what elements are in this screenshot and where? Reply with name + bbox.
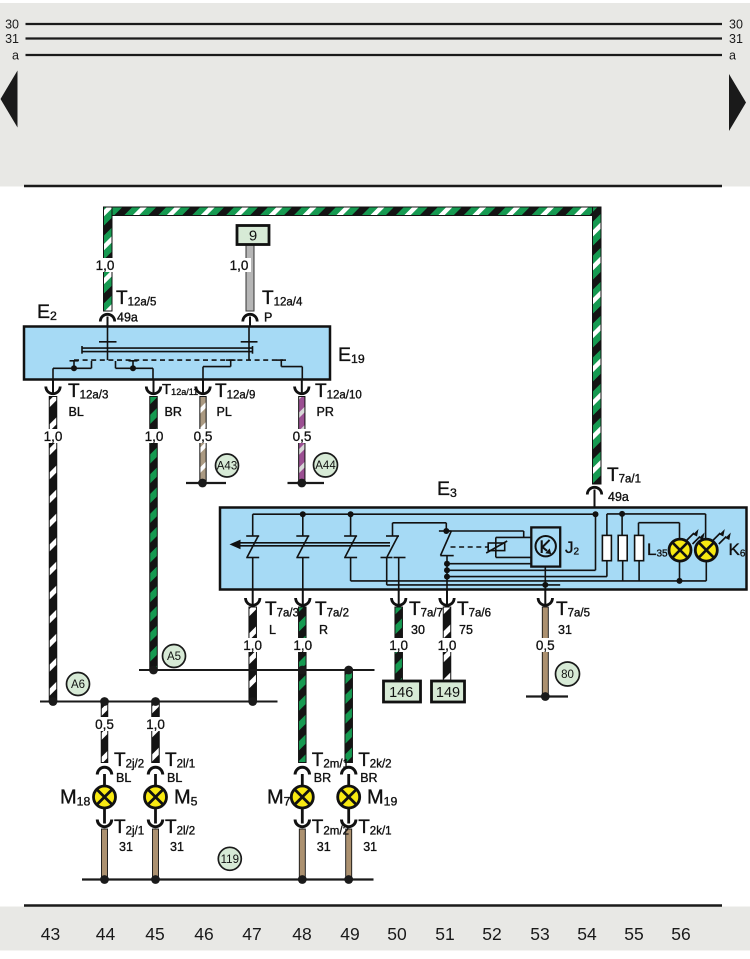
svg-text:L: L (269, 623, 276, 637)
svg-text:T12a/11: T12a/11 (162, 381, 198, 398)
svg-text:E19: E19 (338, 344, 365, 366)
svg-text:BR: BR (314, 771, 331, 785)
svg-text:31: 31 (729, 32, 743, 46)
svg-text:146: 146 (389, 685, 413, 701)
svg-text:149: 149 (436, 685, 460, 701)
svg-text:T12a/10: T12a/10 (315, 381, 362, 402)
svg-text:45: 45 (145, 924, 164, 944)
svg-text:M19: M19 (367, 787, 398, 809)
svg-text:1,0: 1,0 (243, 638, 262, 653)
svg-text:P: P (264, 311, 272, 325)
svg-text:44: 44 (96, 924, 116, 944)
svg-text:A44: A44 (315, 460, 336, 472)
svg-text:49: 49 (340, 924, 359, 944)
svg-text:1,0: 1,0 (293, 638, 312, 653)
svg-text:0,5: 0,5 (293, 429, 312, 444)
svg-text:T2k/1: T2k/1 (358, 817, 391, 838)
svg-text:T2m/2: T2m/2 (312, 817, 349, 838)
svg-text:A5: A5 (167, 651, 181, 663)
svg-text:30: 30 (411, 623, 425, 637)
svg-text:0,5: 0,5 (536, 638, 555, 653)
svg-text:BL: BL (167, 771, 182, 785)
svg-text:49a: 49a (117, 311, 138, 325)
svg-text:T2k/2: T2k/2 (358, 750, 391, 771)
svg-text:T2m/1: T2m/1 (312, 750, 349, 771)
svg-text:PR: PR (317, 405, 334, 419)
svg-text:BL: BL (69, 405, 84, 419)
svg-text:T2j/2: T2j/2 (114, 750, 144, 771)
svg-text:31: 31 (170, 840, 184, 854)
svg-text:53: 53 (530, 924, 549, 944)
svg-text:1,0: 1,0 (44, 429, 63, 444)
svg-text:T7a/2: T7a/2 (315, 599, 349, 620)
svg-text:T7a/5: T7a/5 (556, 599, 590, 620)
svg-text:a: a (12, 49, 19, 63)
svg-text:75: 75 (459, 623, 473, 637)
svg-text:T2l/2: T2l/2 (165, 817, 195, 838)
svg-text:E3: E3 (437, 478, 457, 500)
svg-text:T2l/1: T2l/1 (165, 750, 195, 771)
svg-text:9: 9 (249, 228, 257, 245)
svg-text:0,5: 0,5 (95, 717, 114, 732)
svg-text:E2: E2 (37, 301, 57, 323)
svg-text:1,0: 1,0 (230, 258, 249, 273)
svg-text:0,5: 0,5 (194, 429, 213, 444)
svg-text:1,0: 1,0 (96, 258, 115, 273)
svg-text:M18: M18 (60, 787, 91, 809)
svg-text:PL: PL (217, 405, 232, 419)
svg-text:119: 119 (221, 854, 239, 866)
svg-text:T7a/7: T7a/7 (409, 599, 443, 620)
svg-text:T7a/3: T7a/3 (265, 599, 299, 620)
svg-text:52: 52 (482, 924, 501, 944)
svg-text:a: a (729, 49, 736, 63)
svg-text:31: 31 (119, 840, 133, 854)
svg-text:1,0: 1,0 (145, 429, 164, 444)
svg-text:1,0: 1,0 (389, 638, 408, 653)
svg-text:M7: M7 (267, 787, 291, 809)
svg-text:31: 31 (5, 32, 19, 46)
svg-text:T12a/9: T12a/9 (215, 381, 255, 402)
svg-text:A43: A43 (217, 461, 237, 473)
svg-text:48: 48 (292, 924, 311, 944)
svg-text:R: R (319, 623, 328, 637)
svg-text:31: 31 (558, 623, 572, 637)
svg-text:BL: BL (116, 771, 131, 785)
svg-text:80: 80 (561, 669, 574, 681)
svg-text:T12a/5: T12a/5 (116, 288, 156, 309)
svg-text:51: 51 (435, 924, 454, 944)
svg-text:30: 30 (729, 18, 743, 32)
svg-text:47: 47 (242, 924, 261, 944)
svg-text:BR: BR (360, 771, 377, 785)
svg-text:BR: BR (165, 405, 182, 419)
svg-text:30: 30 (5, 18, 19, 32)
svg-text:A6: A6 (71, 679, 85, 691)
svg-text:T12a/3: T12a/3 (68, 381, 108, 402)
svg-text:54: 54 (577, 924, 597, 944)
svg-text:1,0: 1,0 (146, 717, 165, 732)
svg-text:T2j/1: T2j/1 (114, 817, 144, 838)
svg-text:56: 56 (671, 924, 690, 944)
svg-text:55: 55 (624, 924, 643, 944)
svg-text:T7a/1: T7a/1 (607, 465, 641, 486)
svg-text:50: 50 (387, 924, 407, 944)
svg-text:43: 43 (41, 924, 60, 944)
svg-text:1,0: 1,0 (438, 638, 457, 653)
svg-text:46: 46 (194, 924, 213, 944)
svg-text:49a: 49a (608, 490, 629, 504)
svg-text:M5: M5 (174, 787, 198, 809)
svg-text:31: 31 (317, 840, 331, 854)
svg-text:T7a/6: T7a/6 (457, 599, 491, 620)
svg-text:T12a/4: T12a/4 (262, 288, 303, 309)
svg-text:31: 31 (363, 840, 377, 854)
